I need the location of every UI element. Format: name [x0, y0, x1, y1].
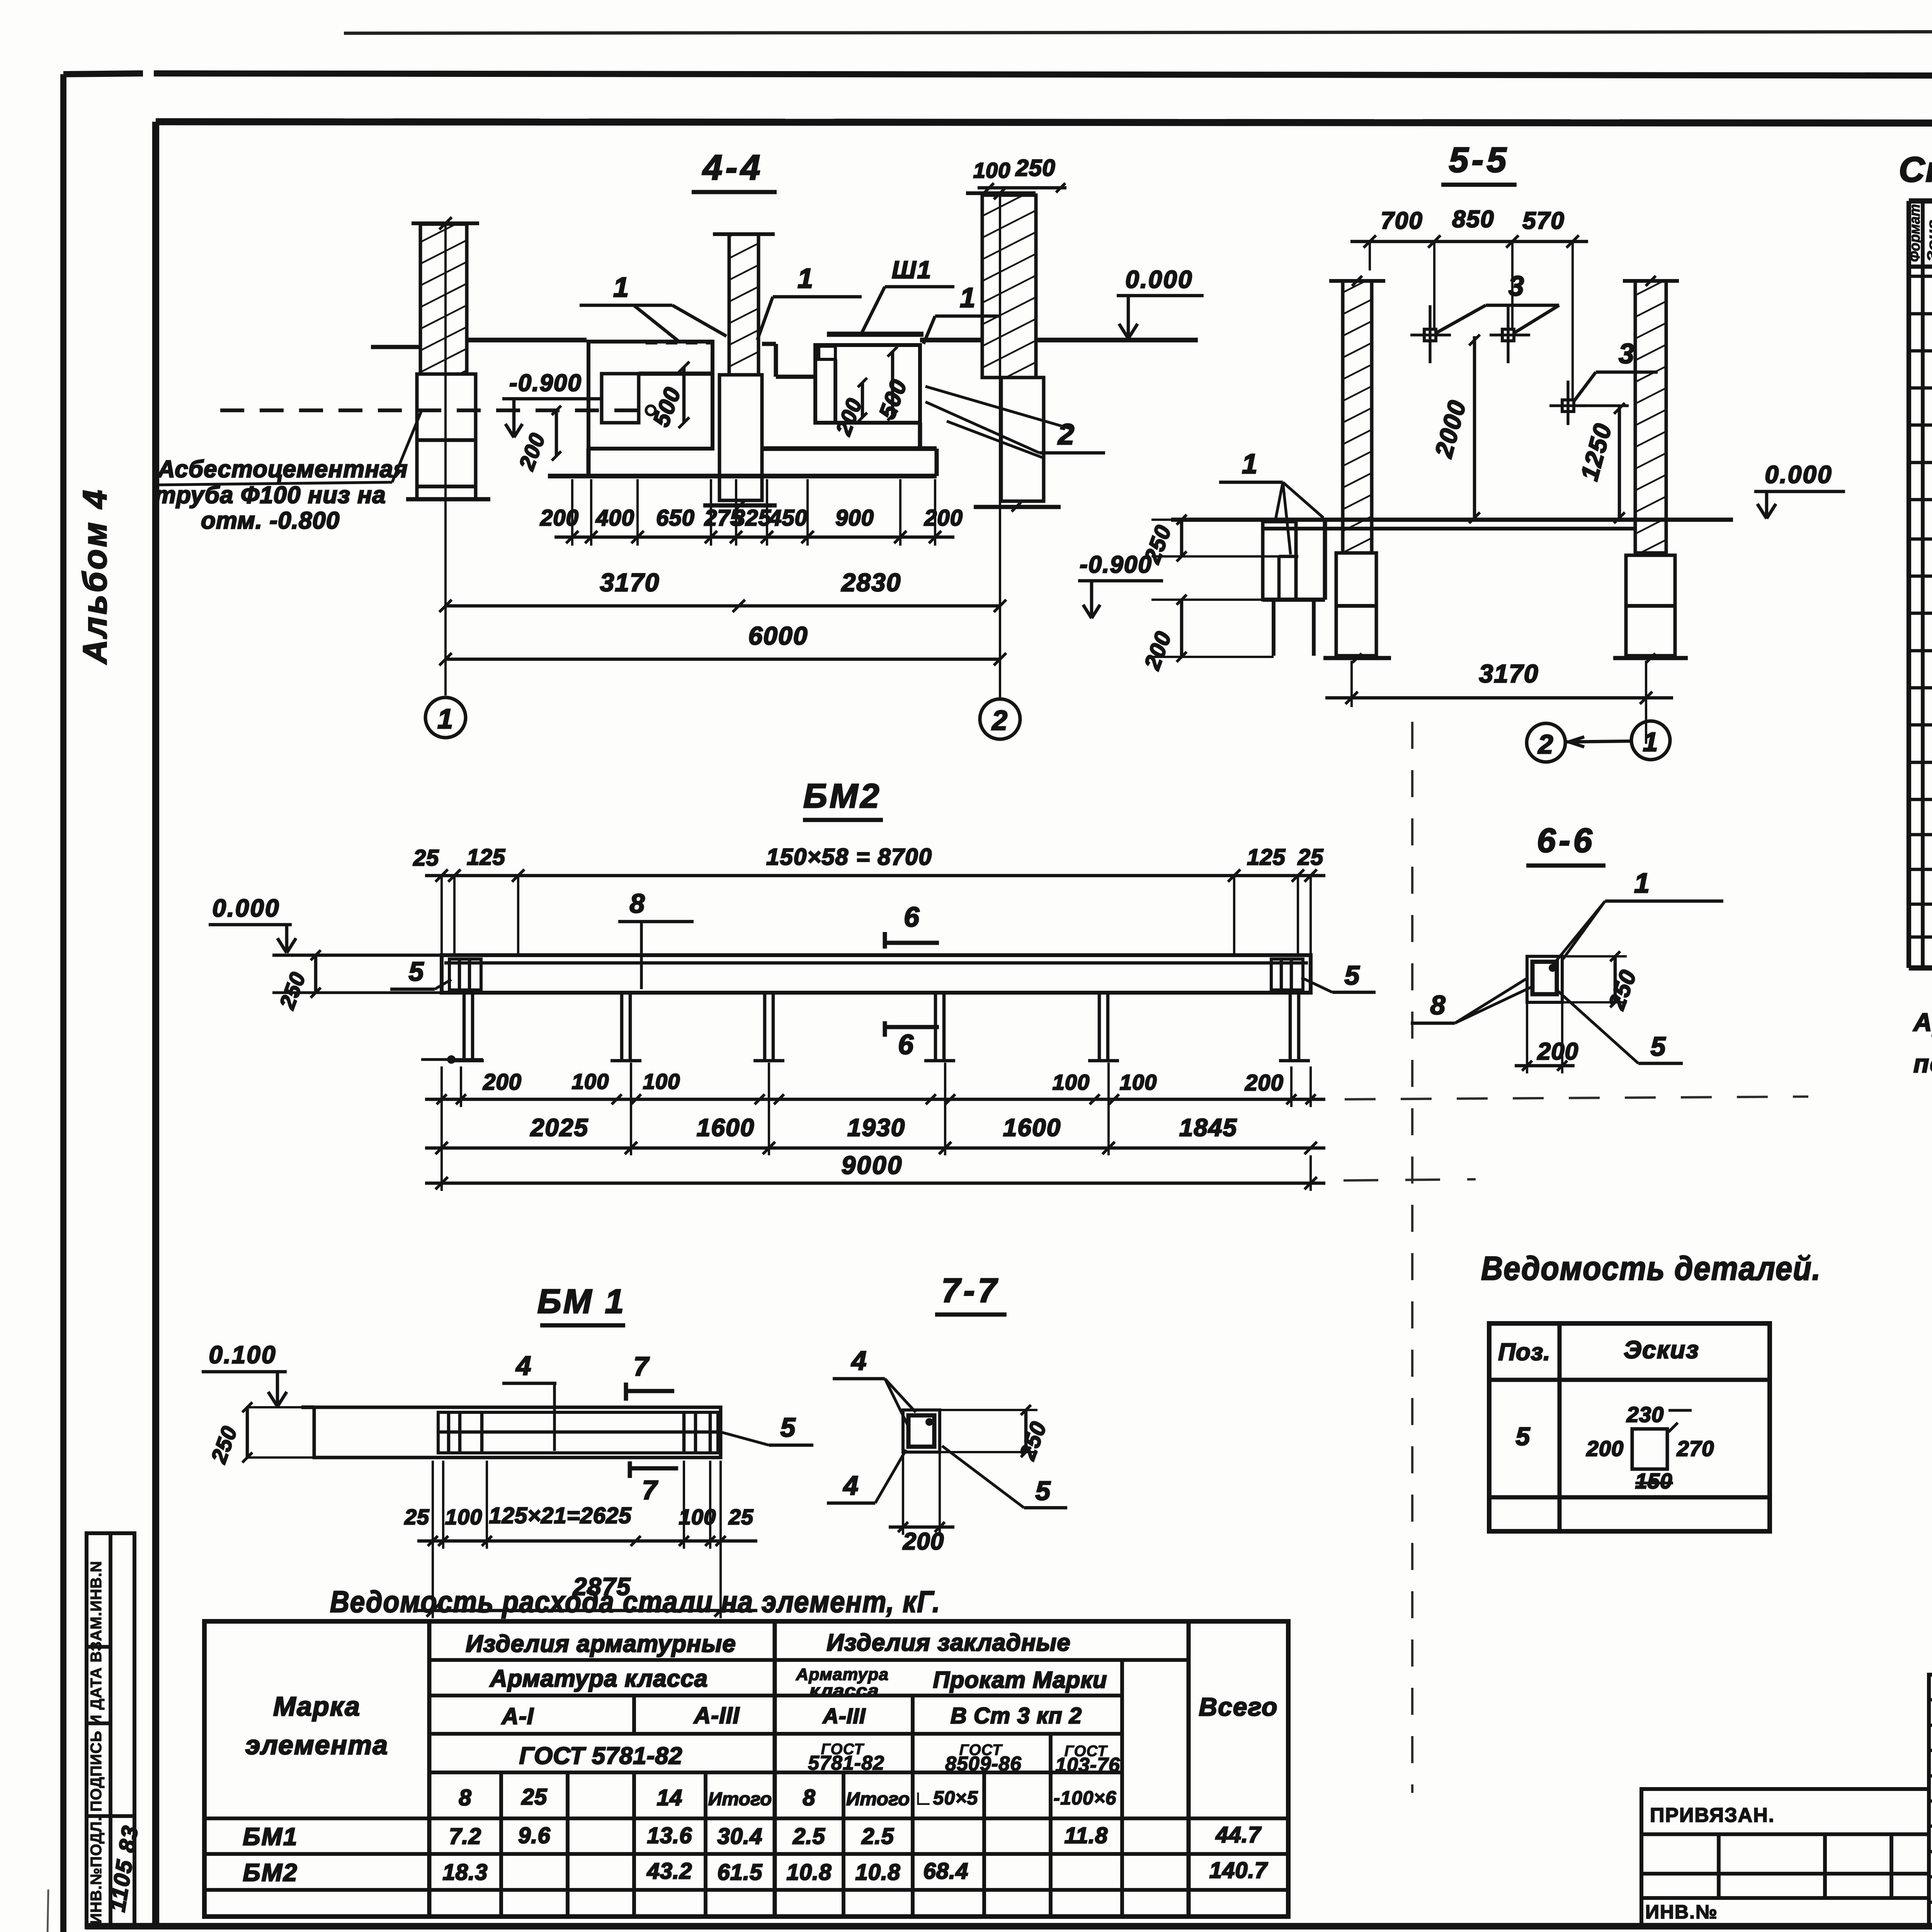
svg-text:14: 14: [657, 1785, 683, 1810]
BM2 dim 9000: [425, 1107, 1325, 1191]
section 7-7 title: [935, 1271, 1007, 1315]
section mark 7 lower BM1: [630, 1461, 678, 1505]
column axis ticks 4-4: [412, 187, 1036, 230]
svg-text:10.8: 10.8: [855, 1860, 901, 1885]
leader 1 third: [923, 282, 1001, 344]
section mark 7 upper BM1: [626, 1351, 674, 1401]
asbestos pipe note: [155, 412, 421, 534]
svg-text:Альбом 4: Альбом 4: [77, 488, 114, 665]
svg-text:1600: 1600: [1003, 1114, 1061, 1141]
svg-text:-0.900: -0.900: [509, 370, 582, 396]
svg-text:5: 5: [1516, 1422, 1531, 1451]
svg-text:Итого: Итого: [846, 1789, 910, 1810]
svg-text:5: 5: [1036, 1476, 1051, 1506]
right trench outline 4-4: [762, 344, 937, 476]
svg-text:13.6: 13.6: [647, 1823, 692, 1848]
BM2 extension dot line: [421, 1055, 483, 1064]
axis bubble 1 of 5-5: [1565, 721, 1670, 760]
svg-text:Итого: Итого: [708, 1789, 772, 1810]
svg-text:Асбестоцементная: Асбестоцементная: [157, 456, 408, 483]
left profile 5-5: [1263, 520, 1325, 656]
svg-text:100: 100: [1053, 1070, 1090, 1094]
svg-text:Марка: Марка: [273, 1691, 361, 1721]
svg-text:8: 8: [803, 1785, 815, 1810]
hatched column left 5-5: [1329, 276, 1385, 553]
album label: [77, 488, 114, 665]
dim 200 7-7: [889, 1452, 954, 1555]
svg-text:200: 200: [1245, 1070, 1284, 1095]
svg-text:поз.5* см. ведомость деталей.: поз.5* см. ведомость деталей.: [1913, 1049, 1932, 1078]
BM2 dim chain 1: [425, 1066, 1325, 1107]
spec table headers: [1907, 204, 1932, 264]
svg-text:0.000: 0.000: [212, 894, 280, 922]
svg-text:25: 25: [521, 1784, 548, 1810]
hatched wall column C2: [713, 234, 775, 375]
svg-text:класса: класса: [810, 1681, 879, 1700]
leader 1 6-6: [1551, 868, 1723, 967]
beam BM1 body: [301, 1407, 721, 1458]
svg-text:6-6: 6-6: [1537, 821, 1595, 859]
leader 4 upper 7-7: [833, 1345, 916, 1426]
svg-text:25: 25: [1298, 845, 1324, 870]
svg-text:5: 5: [409, 956, 425, 986]
svg-text:4: 4: [851, 1345, 867, 1376]
section mark 6 lower: [885, 1021, 939, 1060]
left stamp column: [87, 1533, 143, 1927]
svg-text:325: 325: [733, 505, 771, 531]
svg-text:БМ2: БМ2: [803, 777, 882, 815]
svg-text:Ш1: Ш1: [892, 256, 932, 284]
svg-text:100: 100: [445, 1505, 482, 1529]
svg-text:элемента: элемента: [245, 1730, 388, 1760]
dim 500 right trench: [874, 347, 912, 422]
hatched column right 5-5: [1623, 276, 1679, 553]
dim chain 700 850 570: [1350, 206, 1588, 400]
svg-text:8509-86: 8509-86: [945, 1753, 1022, 1775]
svg-text:5781-82: 5781-82: [808, 1752, 884, 1774]
svg-text:-0.900: -0.900: [1080, 551, 1152, 578]
section 5-5 title: [1441, 140, 1517, 185]
BM1 dim 2875: [417, 1549, 757, 1618]
svg-text:200: 200: [924, 505, 963, 531]
svg-text:8: 8: [459, 1785, 471, 1810]
svg-text:БМ1: БМ1: [243, 1823, 298, 1850]
dim 200 left 5-5: [1139, 595, 1274, 673]
svg-text:6: 6: [898, 1029, 914, 1060]
axis line 1: [444, 222, 447, 696]
embed squares poz 3: [1410, 305, 1530, 363]
leader 2 right: [925, 386, 1105, 458]
steel usage title: [330, 1585, 940, 1619]
axis bubble 1: [425, 697, 466, 738]
embed square lower poz 3: [1549, 381, 1586, 425]
svg-text:25: 25: [413, 845, 439, 871]
svg-text:Ведомость расхода стали на эле: Ведомость расхода стали на элемент, кГ.: [330, 1585, 940, 1619]
svg-text:2830: 2830: [841, 568, 901, 597]
BM2 hanger legs: [453, 993, 1310, 1061]
svg-text:3: 3: [1619, 338, 1635, 369]
section mark 6 upper: [885, 902, 939, 949]
beam section 7-7: [903, 1410, 940, 1452]
svg-text:103-76: 103-76: [1055, 1754, 1120, 1776]
svg-text:1: 1: [437, 704, 454, 735]
floor line left of trench: [371, 340, 587, 347]
svg-text:В Ст 3 кп 2: В Ст 3 кп 2: [951, 1703, 1082, 1728]
svg-text:9.6: 9.6: [518, 1823, 551, 1848]
svg-text:3170: 3170: [600, 568, 660, 597]
svg-text:200: 200: [1537, 1038, 1578, 1065]
scan edge top: [344, 31, 1932, 33]
svg-text:100: 100: [973, 158, 1010, 182]
svg-text:1: 1: [1634, 868, 1650, 899]
short fold dashes: [1344, 1179, 1476, 1180]
svg-text:∟50×5: ∟50×5: [914, 1787, 978, 1809]
BM1 dim chain: [404, 1461, 757, 1549]
svg-text:8: 8: [630, 888, 646, 918]
steel table row BM1: [243, 1822, 1262, 1850]
svg-text:1: 1: [960, 282, 976, 313]
dim 100 250 above C3: [973, 155, 1066, 192]
svg-text:2: 2: [991, 705, 1008, 736]
svg-text:700: 700: [1381, 207, 1423, 234]
svg-text:Спецификация к монолитным балк: Спецификация к монолитным балкам.: [1899, 150, 1932, 189]
svg-text:А-III: А-III: [822, 1704, 866, 1728]
vedomost detaley title: [1481, 1250, 1821, 1287]
leader 5 left BM2: [390, 956, 451, 989]
svg-text:8: 8: [1430, 990, 1446, 1020]
copied by: [1901, 1928, 1932, 1932]
hatched wall column C3: [982, 195, 1036, 378]
svg-text:Изделия закладные: Изделия закладные: [827, 1629, 1071, 1656]
svg-text:150×58 = 8700: 150×58 = 8700: [766, 844, 932, 870]
svg-text:Изделия арматурные: Изделия арматурные: [466, 1631, 736, 1657]
svg-text:2: 2: [1057, 418, 1075, 451]
svg-text:Поз.: Поз.: [1498, 1339, 1550, 1366]
svg-text:900: 900: [835, 505, 874, 531]
svg-text:4-4: 4-4: [702, 148, 764, 187]
svg-text:850: 850: [1452, 206, 1494, 233]
svg-text:61.5: 61.5: [718, 1860, 763, 1885]
svg-text:125: 125: [1247, 845, 1286, 870]
svg-text:125×21=2625: 125×21=2625: [489, 1503, 631, 1528]
steel table row BM2: [243, 1858, 1268, 1886]
leader sch1 label: [862, 256, 954, 333]
svg-text:1: 1: [613, 272, 629, 303]
level 0.000 BM2: [209, 894, 442, 993]
dim 250 6-6: [1562, 951, 1641, 1013]
svg-text:Арматура принята по ГОСТ 5781: Арматура принята по ГОСТ 5781-82: [1913, 1008, 1932, 1036]
dim 200 left trench small: [514, 406, 561, 473]
svg-text:2.5: 2.5: [793, 1824, 825, 1849]
axis line 2: [999, 193, 1001, 697]
svg-text:10.8: 10.8: [787, 1860, 832, 1885]
svg-text:200: 200: [483, 1070, 522, 1095]
svg-text:1: 1: [1242, 449, 1258, 480]
svg-text:6000: 6000: [748, 621, 808, 650]
svg-text:КОПИРОВАЛ: ЛОГИНОВА: КОПИРОВАЛ: ЛОГИНОВА: [1901, 1928, 1932, 1932]
fold line horizontal dashed: [1345, 1097, 1808, 1099]
svg-text:43.2: 43.2: [647, 1859, 692, 1884]
cover plate sch1: [827, 332, 923, 337]
section 4-4 title: [692, 148, 777, 192]
dim 250 7-7: [940, 1405, 1051, 1463]
dim 250 left 5-5: [1139, 515, 1343, 567]
level 0.000 5-5: [1754, 461, 1845, 519]
svg-text:БМ 1: БМ 1: [537, 1282, 626, 1320]
svg-text:4: 4: [515, 1350, 532, 1381]
dim 1250 vertical: [1575, 403, 1629, 523]
leader 5 BM1: [721, 1412, 813, 1445]
level 0.100 BM1: [202, 1341, 287, 1406]
leader 5 6-6: [1558, 991, 1683, 1063]
steel table headers: [245, 1629, 1278, 1810]
beam line 5-5: [1171, 520, 1733, 529]
leader 5 7-7: [942, 1446, 1067, 1508]
foundation under C2: [703, 375, 777, 510]
svg-text:3170: 3170: [1479, 659, 1539, 688]
svg-text:Ведомость деталей.: Ведомость деталей.: [1481, 1250, 1821, 1287]
svg-text:100: 100: [1120, 1070, 1157, 1094]
svg-text:ПРИВЯЗАН.: ПРИВЯЗАН.: [1650, 1804, 1775, 1827]
leader 4 lower 7-7: [827, 1450, 906, 1503]
svg-text:2: 2: [1537, 729, 1554, 759]
fold line vertical dashed: [1411, 722, 1413, 1793]
svg-text:5-5: 5-5: [1449, 140, 1510, 180]
BM2 top dim chain: [413, 844, 1325, 956]
leader 8 6-6: [1411, 978, 1531, 1023]
foundation left 5-5: [1323, 553, 1391, 663]
dim line 6000: [439, 621, 1006, 665]
svg-text:3: 3: [1509, 271, 1525, 302]
svg-text:1: 1: [798, 263, 814, 294]
svg-text:ИНВ.№: ИНВ.№: [1645, 1901, 1718, 1923]
svg-text:30.4: 30.4: [718, 1824, 763, 1849]
svg-text:Эскиз: Эскиз: [1624, 1336, 1699, 1364]
svg-text:0.000: 0.000: [1125, 265, 1193, 293]
left trench outline 4-4: [548, 342, 937, 476]
dim 250 BM1 left: [206, 1402, 314, 1466]
svg-text:250: 250: [1015, 155, 1055, 181]
leader 3 lower: [1573, 338, 1658, 402]
svg-text:200: 200: [903, 1528, 944, 1555]
level mark 0.000 4-4: [1117, 265, 1204, 338]
svg-text:100: 100: [643, 1069, 680, 1094]
leader 8 BM2: [618, 888, 694, 989]
svg-text:11.8: 11.8: [1065, 1823, 1108, 1848]
poz 5 sketch: [1586, 1402, 1714, 1493]
svg-text:150: 150: [1635, 1469, 1672, 1493]
svg-text:Формат: Формат: [1907, 204, 1923, 262]
svg-text:Зона: Зона: [1925, 219, 1932, 262]
svg-text:Прокат Марки: Прокат Марки: [933, 1667, 1107, 1693]
spec table title: [1899, 150, 1932, 189]
axis bubble 2: [980, 699, 1020, 739]
beam section 6-6: [1527, 956, 1562, 1002]
svg-text:5: 5: [781, 1412, 796, 1442]
svg-text:230: 230: [1626, 1402, 1664, 1427]
svg-text:1930: 1930: [847, 1114, 905, 1141]
svg-text:А-I: А-I: [501, 1703, 534, 1729]
dim 500 in left trench: [648, 362, 689, 430]
dim 3170 5-5: [1325, 659, 1673, 744]
dim 250 beam height BM2: [274, 950, 321, 1012]
level mark -0.900 in 4-4: [502, 370, 603, 437]
svg-text:140.7: 140.7: [1209, 1858, 1268, 1883]
svg-text:4: 4: [843, 1470, 859, 1500]
dim 200 right trench: [831, 378, 867, 439]
svg-text:0.100: 0.100: [209, 1341, 276, 1369]
svg-text:7.2: 7.2: [449, 1824, 481, 1849]
svg-text:270: 270: [1677, 1436, 1714, 1461]
title block signature grid: [1929, 1675, 1932, 1927]
hatched wall column C1: [420, 224, 467, 374]
svg-text:труба Ф100 низ на: труба Ф100 низ на: [155, 482, 386, 509]
rebar GOST note: [1913, 1008, 1932, 1078]
leader 1 first: [580, 272, 726, 342]
svg-text:6: 6: [904, 902, 920, 933]
svg-text:7: 7: [642, 1475, 658, 1505]
svg-text:200: 200: [1586, 1436, 1624, 1461]
svg-text:125: 125: [467, 845, 505, 870]
leader 1 5-5: [1219, 449, 1323, 554]
svg-text:5: 5: [1345, 960, 1361, 990]
pencil marks bottom left: [46, 1889, 139, 1932]
svg-text:ИНВ.№ПОДЛ. ПОДПИСЬ И ДАТА ВЗ: ИНВ.№ПОДЛ. ПОДПИСЬ И ДАТА ВЗАМ.ИНВ.N: [88, 1561, 105, 1924]
leader 5 right BM2: [1301, 960, 1376, 992]
svg-text:А-III: А-III: [693, 1702, 740, 1728]
axis bubble 2 of 5-5: [1527, 723, 1565, 762]
svg-text:400: 400: [595, 505, 634, 531]
svg-text:Всего: Всего: [1199, 1692, 1278, 1721]
floor line right of trench: [920, 338, 1198, 342]
svg-text:5: 5: [1651, 1031, 1667, 1061]
beam BM1 title: [537, 1282, 626, 1325]
svg-text:2025: 2025: [530, 1114, 588, 1141]
leader 3 upper: [1436, 271, 1559, 333]
vedomost detaley table: [1489, 1323, 1770, 1531]
section 6-6 title: [1526, 821, 1605, 866]
dim chain small 4-4: [540, 479, 963, 546]
foundation under C3: [974, 378, 1061, 512]
svg-text:9000: 9000: [842, 1151, 903, 1179]
dim line 3170 2830: [439, 568, 1006, 612]
leader 1 second: [757, 263, 862, 340]
beam BM2 title: [803, 777, 883, 820]
svg-text:44.7: 44.7: [1216, 1822, 1262, 1847]
svg-text:-100×6: -100×6: [1053, 1787, 1116, 1809]
svg-text:Арматура класса: Арматура класса: [489, 1665, 708, 1692]
svg-text:100: 100: [572, 1069, 609, 1094]
dashed level line -0.900 through trench: [220, 406, 655, 415]
svg-text:570: 570: [1522, 207, 1565, 234]
svg-text:0.000: 0.000: [1765, 461, 1832, 488]
svg-text:1600: 1600: [697, 1114, 755, 1141]
spec table grid: [1909, 201, 1932, 968]
svg-text:1: 1: [1643, 727, 1659, 757]
level -0.900 5-5: [1078, 551, 1163, 618]
svg-text:25: 25: [404, 1505, 429, 1529]
svg-text:2.5: 2.5: [861, 1824, 894, 1849]
dim 200 6-6: [1515, 1002, 1578, 1073]
svg-text:25: 25: [728, 1505, 753, 1529]
svg-text:18.3: 18.3: [443, 1860, 488, 1885]
foundation under C1: [406, 374, 490, 499]
svg-text:7: 7: [634, 1351, 650, 1381]
BM2 dim chain 2: [425, 1063, 1325, 1155]
steel table grid: [204, 1621, 1288, 1917]
foundation right 5-5: [1613, 555, 1688, 663]
svg-text:БМ2: БМ2: [243, 1859, 298, 1886]
beam BM2 body: [442, 955, 1311, 993]
svg-text:450: 450: [769, 505, 808, 531]
svg-text:68.4: 68.4: [923, 1859, 969, 1884]
title block attach table: [1641, 1789, 1929, 1927]
svg-text:отм. -0.800: отм. -0.800: [201, 507, 340, 534]
svg-text:1845: 1845: [1179, 1114, 1237, 1141]
dim 2000 vertical: [1429, 335, 1480, 523]
svg-text:ГОСТ 5781-82: ГОСТ 5781-82: [519, 1743, 683, 1769]
svg-text:7-7: 7-7: [941, 1271, 1000, 1310]
svg-text:650: 650: [656, 505, 695, 531]
leader 4 BM1: [502, 1350, 556, 1451]
